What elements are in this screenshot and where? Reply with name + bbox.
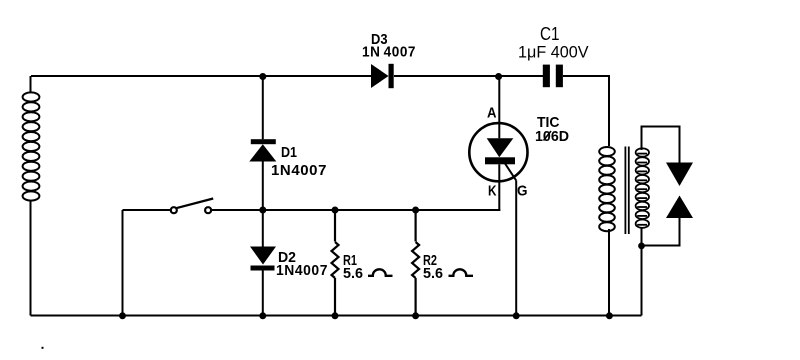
label R1 ohm symbol — [368, 269, 393, 275]
node junction rail primary — [606, 312, 613, 319]
transformer T1 core — [625, 147, 628, 235]
node junction switch row D2 — [259, 207, 266, 214]
node junction rail D2 — [259, 312, 266, 319]
svg-text:1N4007: 1N4007 — [271, 162, 327, 179]
wire bottom rail — [31, 315, 642, 317]
node junction top D1 branch — [259, 73, 266, 80]
diode D2 symbol — [250, 247, 276, 271]
wire D1 anode-to-top — [262, 76, 264, 139]
svg-text:1μF 400V: 1μF 400V — [518, 44, 589, 62]
inductor L1 pickup coil — [23, 92, 40, 200]
capacitor C1 symbol — [543, 65, 563, 88]
wire top rail middle segment — [394, 75, 543, 77]
wire switch row right to SCR cathode — [211, 209, 500, 211]
node junction switch row R1 — [332, 207, 339, 214]
stray ink speck — [42, 347, 44, 349]
wire D1 to switch row — [262, 162, 264, 211]
svg-text:K: K — [488, 183, 497, 200]
wire left vertical below coil — [30, 200, 32, 316]
transformer T1 primary coil — [599, 147, 615, 231]
wire switch row left — [123, 209, 171, 211]
node junction top SCR anode — [495, 73, 502, 80]
svg-text:D1: D1 — [281, 144, 297, 161]
wire D2 anode-to-switch-row — [262, 210, 264, 247]
node junction rail gate — [513, 312, 520, 319]
label slashed zero mark — [544, 131, 552, 141]
switch S1 — [171, 199, 213, 214]
wire top rail right segment — [563, 76, 609, 146]
wire secondary bottom to rail — [641, 228, 643, 316]
wire D2 cathode to bottom rail — [262, 271, 264, 316]
node junction rail switch branch — [119, 312, 126, 319]
diode DL1 down triangle — [666, 163, 693, 187]
svg-text:5.6: 5.6 — [423, 265, 443, 282]
diode DL2 up triangle — [666, 196, 693, 219]
wire gate to bottom rail — [515, 181, 517, 316]
thyristor U1 TIC106D — [469, 76, 527, 211]
node junction rail R2 — [412, 312, 419, 319]
wire primary bottom to rail — [608, 229, 610, 316]
node junction rail R1 — [332, 312, 339, 319]
wire switch branch vertical — [122, 210, 124, 316]
diode D3 symbol — [371, 64, 394, 88]
wire secondary top to load branch — [642, 127, 680, 163]
wire top rail left segment — [31, 75, 371, 77]
node junction switch row R2 — [412, 207, 419, 214]
svg-text:106D: 106D — [535, 128, 569, 145]
resistor R2 — [412, 210, 419, 316]
resistor R1 — [332, 210, 339, 316]
node junction secondary bottom — [638, 243, 645, 250]
svg-text:G: G — [517, 183, 528, 200]
transformer T1 secondary coil — [636, 148, 649, 228]
svg-text:1N4007: 1N4007 — [276, 262, 328, 279]
svg-text:A: A — [487, 105, 497, 122]
svg-text:1N 4007: 1N 4007 — [362, 44, 416, 61]
svg-text:5.6: 5.6 — [343, 265, 363, 282]
wire load branch bottom — [642, 218, 680, 246]
wire left vertical top stub — [30, 76, 32, 93]
diode D1 symbol — [249, 139, 276, 161]
svg-text:C1: C1 — [540, 24, 560, 44]
label R2 ohm symbol — [449, 269, 474, 275]
